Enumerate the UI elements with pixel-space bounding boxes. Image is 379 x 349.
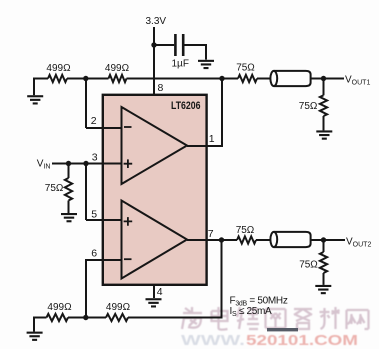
op-amp U1a triangle (122, 107, 188, 184)
U1a plus input sign (124, 159, 133, 168)
resistor R9 75ohm shunt (323, 240, 325, 252)
svg-text:499Ω: 499Ω (46, 63, 71, 74)
U1a minus input sign (124, 126, 132, 128)
svg-text:1µF: 1µF (172, 59, 189, 70)
svg-text:8: 8 (158, 82, 164, 94)
resistor R5 75ohm input termination (68, 164, 70, 179)
svg-text:75Ω: 75Ω (236, 225, 255, 236)
coax cable 2 body (274, 232, 311, 247)
resistor R4 75ohm shunt zigzag (323, 79, 325, 96)
resistor R2 499ohm zigzag (109, 75, 127, 82)
junction pin5 branch node (83, 161, 88, 166)
resistor R7 499ohm zigzag (106, 314, 128, 321)
wire R1 to R2 (67, 78, 109, 80)
svg-text:75Ω: 75Ω (299, 101, 318, 112)
svg-text:5: 5 (91, 209, 97, 221)
svg-text:WWW.: WWW. (181, 332, 245, 349)
svg-text:3: 3 (92, 151, 98, 163)
wire pin 4 to ground (153, 285, 155, 298)
ground of R9 (315, 285, 331, 294)
capacitor C1 1uF plates (175, 34, 183, 56)
wire VIN node to pin 5 (86, 164, 122, 221)
wire bottom rail ground to R6 (34, 317, 47, 319)
resistor R8 75ohm series zigzag (237, 236, 256, 243)
wire coax2 to VOUT2 (311, 239, 345, 241)
svg-text:499Ω: 499Ω (47, 302, 72, 313)
U1b plus input sign (124, 217, 133, 226)
svg-text:75Ω: 75Ω (236, 62, 255, 73)
coax cable 2 left end (270, 232, 277, 247)
svg-text:4: 4 (157, 286, 163, 298)
U1b minus input sign (124, 258, 132, 260)
junction pin1 feedback node (219, 76, 224, 81)
wire R7 to pin7 riser (128, 240, 222, 318)
svg-text:1: 1 (209, 133, 215, 145)
svg-text:6: 6 (91, 248, 97, 260)
svg-text:75Ω: 75Ω (45, 183, 64, 194)
wire VIN to pin 3 (52, 163, 122, 165)
svg-text:LT6206: LT6206 (171, 100, 201, 112)
wire capacitor to ground (185, 45, 207, 60)
ground of R4 (316, 130, 332, 139)
op-amp U1b triangle (122, 201, 188, 279)
svg-text:520101.COM: 520101.COM (246, 332, 358, 349)
svg-text:2: 2 (91, 115, 97, 127)
ground bottom-left (27, 332, 43, 341)
wire coax1 to VOUT1 (311, 78, 344, 80)
wire pin 7 output (187, 239, 237, 241)
wire R3 to coax (257, 78, 272, 80)
svg-text:499Ω: 499Ω (105, 63, 130, 74)
svg-text:IS ≤ 25mA: IS ≤ 25mA (230, 306, 273, 318)
wire pin 1 to feedback node (187, 79, 222, 147)
junction VOUT1 node (321, 76, 326, 81)
ground of capacitor C1 (198, 60, 214, 69)
ground of pin 4 (146, 298, 162, 307)
svg-text:7: 7 (208, 228, 214, 240)
watermark dark dash (267, 328, 298, 331)
junction VOUT2 node (321, 237, 326, 242)
coax cable 1 body (274, 71, 311, 86)
wire node A down to pin 2 (86, 79, 122, 129)
svg-text:499Ω: 499Ω (106, 302, 131, 313)
svg-text:75Ω: 75Ω (299, 260, 318, 271)
coax cable 1 left end (270, 71, 277, 86)
wire supply 3.3V to pin 8 (153, 27, 155, 95)
resistor R1 499ohm zigzag (48, 75, 67, 82)
junction supply/capacitor (151, 42, 156, 47)
ground of R5 (61, 213, 77, 222)
wire bottom-left ground drop (33, 317, 35, 332)
ground top-left (27, 95, 43, 104)
svg-text:3.3V: 3.3V (146, 16, 167, 27)
junction node B (R6/R7/pin6) (83, 315, 88, 320)
junction node A (R1/R2/pin2) (83, 76, 88, 81)
wire top-left ground drop (33, 78, 35, 96)
wire R8 to coax2 (256, 239, 272, 241)
resistor R6 499ohm zigzag (47, 314, 69, 321)
wire pin 6 to bottom rail (86, 260, 122, 318)
wire R6 to R7 (68, 317, 106, 319)
resistor R3 75ohm series zigzag (238, 75, 257, 82)
junction pin7 node (219, 237, 224, 242)
wire supply to capacitor (154, 44, 174, 46)
op-amp IC U1 LT6206 body (103, 95, 207, 285)
wire top rail ground to R1 (34, 78, 48, 80)
wire R2 to pin1 riser (127, 78, 239, 80)
junction VIN shunt node (66, 161, 71, 166)
